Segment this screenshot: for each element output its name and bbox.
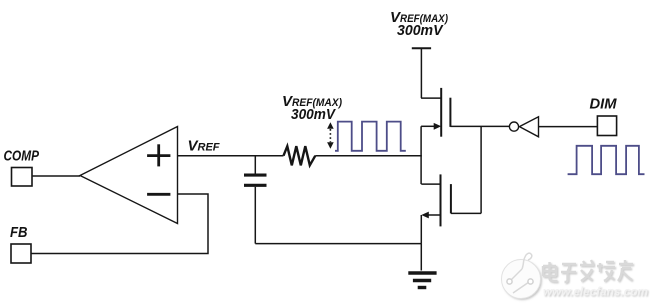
- svg-text:300mV: 300mV: [397, 23, 444, 39]
- svg-text:REF: REF: [198, 142, 220, 154]
- svg-text:300mV: 300mV: [291, 107, 336, 123]
- svg-text:www.elecfans.com: www.elecfans.com: [543, 285, 648, 299]
- svg-text:COMP: COMP: [4, 149, 40, 165]
- svg-text:FB: FB: [10, 225, 28, 241]
- svg-text:DIM: DIM: [590, 96, 617, 113]
